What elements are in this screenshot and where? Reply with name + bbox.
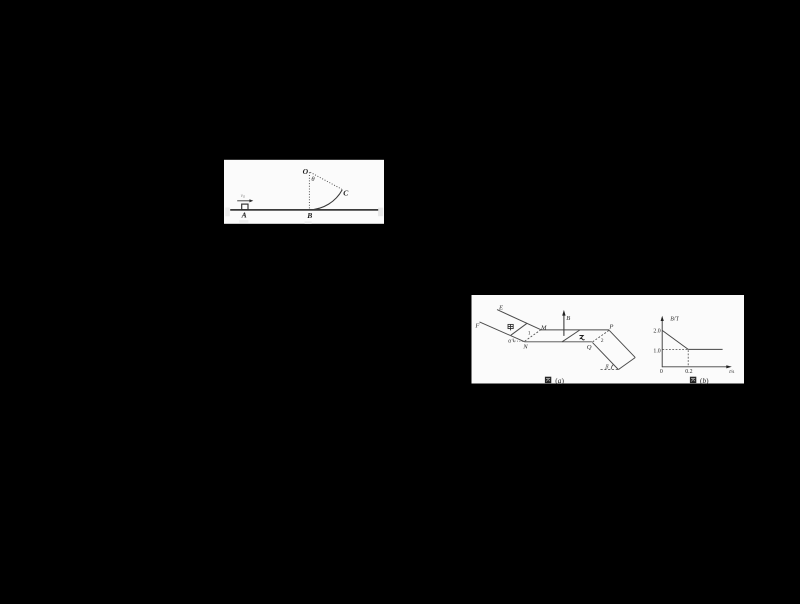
figure 1 grey artifact bottom strip — [239, 220, 248, 223]
dashed junction line N-M labelled 1 — [525, 330, 541, 341]
conductor bar yi on horizontal section — [562, 330, 580, 342]
arc track BC — [310, 190, 343, 210]
graph x axis — [662, 366, 727, 368]
svg-text:B: B — [566, 315, 570, 322]
svg-text:B/T: B/T — [670, 317, 679, 323]
dotted radius OC — [310, 172, 342, 189]
svg-text:A: A — [241, 211, 247, 220]
figure 1 white panel — [224, 160, 384, 224]
rail F (lower left incline rail) — [480, 322, 525, 342]
svg-text:P: P — [608, 323, 613, 330]
top horizontal rail M-P — [541, 329, 610, 331]
label yi (CJK drawn) — [579, 336, 584, 340]
svg-text:Q: Q — [587, 344, 592, 351]
svg-text:(b): (b) — [700, 376, 709, 385]
alpha angle arc — [513, 339, 514, 343]
dashed horizontal at beta — [601, 369, 620, 371]
svg-text:1: 1 — [528, 331, 531, 337]
conductor bar jia on incline — [511, 323, 527, 335]
graph y axis — [661, 320, 663, 368]
beta angle arc — [611, 365, 613, 370]
magnetic field arrow B — [563, 315, 565, 336]
right incline lower rail from Q — [592, 342, 618, 369]
caption tu (b) : CJK box drawn — [690, 377, 696, 383]
rail E (upper left incline rail) — [497, 310, 541, 330]
svg-text:0: 0 — [660, 369, 663, 375]
svg-text:t/s: t/s — [729, 369, 734, 375]
caption tu (a) : CJK box drawn — [545, 377, 551, 383]
dashed junction line P-Q labelled 2 — [592, 330, 609, 342]
svg-text:E: E — [498, 304, 503, 311]
velocity arrow v0 — [237, 200, 250, 202]
label jia (CJK drawn) — [508, 324, 513, 330]
svg-text:B: B — [306, 211, 312, 220]
svg-text:2.0: 2.0 — [653, 329, 660, 335]
block on ground at A — [242, 204, 248, 210]
dashed drop at 0.2 — [687, 350, 689, 366]
svg-text:2: 2 — [601, 338, 604, 344]
svg-text:N: N — [522, 343, 528, 350]
svg-text:(a): (a) — [555, 376, 564, 385]
figure 1 grey artifact left of ground line — [225, 208, 230, 217]
B-t descending segment — [662, 330, 688, 349]
svg-text:O: O — [303, 167, 309, 176]
dotted horizontal at N — [515, 340, 524, 342]
B-t constant segment — [688, 348, 722, 350]
svg-text:1.0: 1.0 — [653, 348, 660, 354]
dotted radius OB — [308, 172, 310, 209]
svg-text:0.2: 0.2 — [685, 369, 692, 375]
bottom horizontal rail N-Q — [524, 341, 592, 343]
right incline bottom edge — [618, 358, 635, 370]
figure 1 grey artifact right end — [378, 208, 383, 217]
ground line AB — [230, 209, 378, 211]
figure 2 white panel — [472, 295, 745, 384]
figure 1 grey artifact under B — [305, 221, 312, 224]
right incline upper rail from P — [609, 330, 635, 357]
dashed level 1.0 — [662, 349, 688, 351]
